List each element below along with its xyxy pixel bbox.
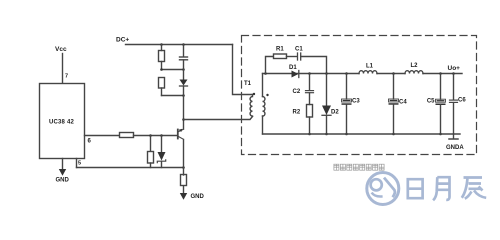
ground GNDA: [453, 134, 455, 139]
svg-text:C6: C6: [458, 98, 466, 104]
resistor source sense: [181, 175, 187, 186]
wire: [287, 56, 298, 58]
node junction R2 bottom: [308, 133, 311, 136]
svg-text:D2: D2: [331, 109, 339, 115]
resistor snubber upper: [159, 51, 165, 62]
logo text 辰: [462, 178, 486, 199]
wire: [309, 117, 311, 134]
inductor L2: [405, 71, 423, 74]
logo watermark circle: [367, 173, 399, 205]
resistor gate series: [120, 133, 134, 138]
svg-text:T1: T1: [244, 81, 252, 87]
node phase dot secondary: [266, 94, 268, 96]
svg-text:D1: D1: [289, 65, 297, 71]
svg-text:UC38 42: UC38 42: [49, 120, 75, 126]
logo inner stroke: [384, 178, 395, 198]
wire: [161, 62, 163, 70]
diode snubber clamp: [183, 70, 185, 80]
wire DC+ rail: [126, 44, 233, 46]
wire drain column: [183, 86, 185, 129]
inductor L1: [359, 71, 377, 74]
wire DC rail corner to T1: [233, 45, 253, 95]
node junction mid left: [160, 68, 163, 71]
transistor Q1 switching MOSFET: [178, 129, 184, 140]
svg-text:GNDA: GNDA: [446, 145, 464, 151]
wire: [161, 88, 163, 96]
svg-text:6: 6: [88, 139, 92, 145]
wire: [161, 162, 163, 168]
wire drain to primary: [184, 117, 253, 120]
node junction C5 top: [439, 72, 442, 75]
svg-text:L1: L1: [366, 64, 374, 70]
svg-text:Uo+: Uo+: [448, 65, 461, 72]
capacitor C3 electrolytic: [346, 74, 348, 100]
wire output bottom rail: [263, 133, 461, 135]
wire transistor source column: [183, 140, 185, 176]
svg-text:C2: C2: [293, 89, 301, 95]
pin 6 wire: [85, 135, 120, 137]
op-amp U1 UC3842 PWM controller box: [40, 84, 85, 159]
wire: [150, 163, 152, 168]
capacitor C6: [453, 74, 455, 100]
node junction D2 top: [325, 72, 328, 75]
ground GND under U1: [62, 159, 64, 170]
diode D2: [326, 74, 328, 106]
capacitor C2: [309, 74, 311, 91]
node junction C3 bottom: [345, 133, 348, 136]
transformer T1 primary winding: [250, 95, 252, 117]
node junction source return: [182, 166, 185, 169]
wire RC snubber riser: [266, 57, 274, 74]
node junction D2 bottom: [325, 133, 328, 136]
svg-text:7: 7: [65, 74, 68, 80]
node junction C4 bottom: [392, 133, 395, 136]
svg-text:GND: GND: [191, 194, 205, 200]
node junction snubber C top: [182, 43, 185, 46]
ground GND at source: [180, 193, 187, 200]
wire zener drop: [161, 136, 163, 153]
logo inner 2: [371, 179, 382, 190]
node junction drain: [182, 118, 185, 121]
capacitor snubber: [183, 45, 185, 57]
node junction C4 top: [392, 72, 395, 75]
wire: [161, 45, 163, 51]
svg-text:C3: C3: [352, 99, 360, 105]
wire RC to rail: [301, 57, 327, 74]
capacitor C1: [297, 53, 299, 60]
diode zener gate clamp: [158, 152, 166, 161]
wire snubber bottom link: [162, 95, 184, 97]
node junction C6 top: [452, 72, 455, 75]
resistor gate pulldown: [148, 152, 154, 164]
node Vcc: [55, 46, 67, 53]
node junction C3 top: [345, 72, 348, 75]
svg-text:C4: C4: [399, 100, 407, 106]
wire secondary bottom riser: [262, 116, 264, 134]
wire gate: [134, 135, 178, 137]
node junction RC riser: [264, 72, 267, 75]
wire snubber mid link: [162, 69, 184, 71]
dashed output box: [242, 36, 477, 155]
svg-text:5: 5: [78, 161, 81, 167]
svg-text:R2: R2: [293, 109, 301, 115]
resistor R2: [307, 105, 313, 118]
resistor R1: [274, 54, 287, 59]
diode D1 rectifier: [292, 71, 299, 78]
wire output top rail: [263, 73, 360, 75]
node junction C5 bottom: [439, 133, 442, 136]
svg-text:Vcc: Vcc: [55, 46, 67, 53]
node phase dot primary: [253, 93, 255, 95]
wire resistor drop: [150, 136, 152, 152]
node junction C2 top: [308, 72, 311, 75]
svg-text:GND: GND: [56, 178, 70, 184]
wire secondary top riser: [262, 74, 264, 97]
wire Vcc lead: [62, 54, 64, 84]
caption 输出整流滤波电路: [334, 164, 384, 170]
pin 5 stub: [76, 159, 78, 168]
node junction gate D: [160, 134, 163, 137]
svg-text:C1: C1: [295, 47, 303, 53]
transformer T1 secondary winding: [263, 97, 265, 117]
wire bottom return: [77, 167, 184, 169]
wire: [183, 186, 185, 193]
logo text 月: [433, 177, 449, 200]
logo text 日: [408, 179, 423, 198]
svg-text:R1: R1: [276, 47, 284, 53]
svg-text:L2: L2: [411, 63, 419, 69]
node junction snubber bottom: [182, 94, 185, 97]
capacitor C5 electrolytic: [440, 74, 442, 100]
svg-text:C5: C5: [427, 99, 435, 105]
node junction snubber R top: [160, 43, 163, 46]
node junction gate R: [149, 134, 152, 137]
resistor snubber lower: [159, 78, 165, 89]
capacitor C4 electrolytic: [393, 74, 395, 100]
svg-text:DC+: DC+: [116, 37, 129, 44]
node junction mid right: [182, 68, 185, 71]
